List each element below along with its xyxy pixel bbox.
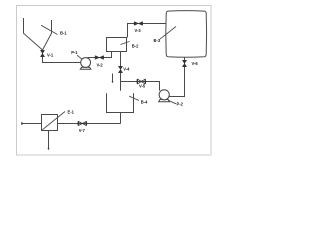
- svg-text:B-1: B-1: [60, 30, 67, 35]
- svg-text:E-1: E-1: [68, 110, 75, 115]
- svg-text:V-5: V-5: [139, 83, 146, 88]
- svg-text:V-1: V-1: [47, 52, 54, 57]
- svg-text:P-1: P-1: [71, 50, 78, 55]
- svg-text:V-6: V-6: [192, 61, 199, 66]
- svg-text:B-3: B-3: [154, 38, 161, 43]
- svg-text:V-3: V-3: [135, 28, 142, 33]
- svg-text:B-4: B-4: [141, 99, 148, 104]
- svg-text:V-7: V-7: [79, 128, 86, 133]
- svg-text:V-4: V-4: [123, 66, 130, 71]
- svg-text:P-2: P-2: [177, 102, 184, 107]
- svg-text:V-2: V-2: [97, 63, 104, 68]
- svg-text:B-2: B-2: [132, 43, 139, 48]
